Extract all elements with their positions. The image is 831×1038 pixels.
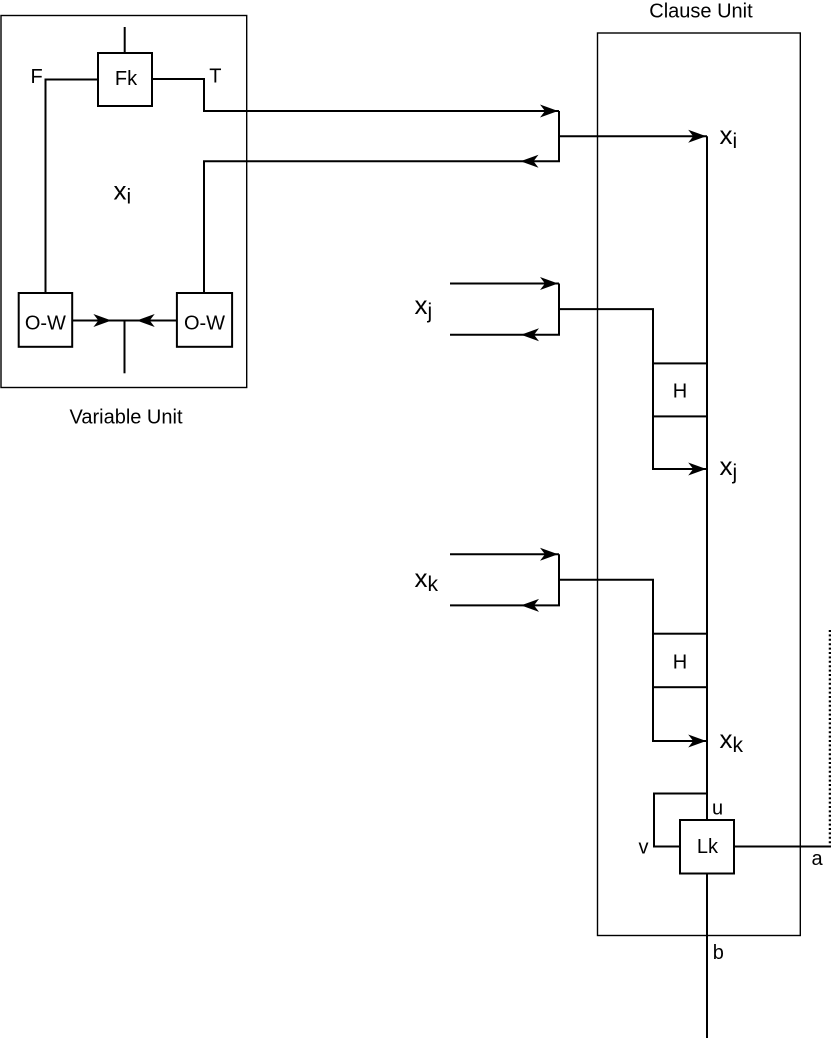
wire connector and return line to right O-W	[204, 111, 559, 293]
box Lk	[680, 820, 734, 874]
wire H to xj entry	[653, 416, 707, 469]
arrowhead right on T line	[540, 105, 558, 118]
clause unit frame	[598, 33, 801, 936]
wire T output	[152, 79, 559, 111]
arrowhead left on return line	[521, 155, 539, 168]
svg-text:u: u	[712, 798, 723, 820]
wire Fk top stub	[124, 27, 126, 53]
svg-text:H: H	[673, 380, 687, 402]
svg-text:Clause Unit: Clause Unit	[649, 1, 753, 23]
wire center bottom stub	[124, 321, 126, 374]
arrowhead right xi entry	[688, 130, 706, 143]
box Fk	[98, 53, 152, 106]
arrowhead right xj entry	[688, 463, 706, 476]
box O-W right	[177, 293, 232, 347]
wire xk connector and bottom output	[450, 554, 559, 605]
svg-text:F: F	[31, 66, 43, 88]
arrowhead right xk entry	[688, 735, 706, 748]
box H upper	[653, 363, 707, 416]
wire a output	[734, 846, 831, 848]
svg-text:v: v	[639, 837, 649, 859]
svg-text:Variable Unit: Variable Unit	[69, 406, 182, 428]
arrowhead right xj top	[540, 277, 558, 290]
wire xk top input	[450, 553, 559, 555]
arrowhead left between O-W	[137, 314, 155, 327]
arrowhead left xj bottom	[521, 328, 539, 341]
arrowhead right between O-W	[93, 314, 111, 327]
wire xj connector and bottom output	[450, 284, 559, 335]
arrowhead right xk top	[540, 548, 558, 561]
wire between O-W boxes	[72, 320, 177, 322]
wire xi mid line into clause	[559, 135, 707, 137]
wire F output to left O-W	[46, 80, 99, 294]
wire xj mid to H	[559, 309, 653, 363]
svg-text:O-W: O-W	[184, 313, 225, 335]
arrowhead left xk bottom	[521, 599, 539, 612]
wire chain vertical	[706, 136, 708, 820]
box O-W left	[19, 293, 72, 347]
wire H to xk entry	[653, 687, 707, 741]
wire b output below Lk	[706, 874, 708, 1038]
svg-text:a: a	[812, 848, 824, 870]
box H lower	[653, 634, 707, 688]
wire xk mid to H	[559, 580, 653, 634]
variable unit frame	[1, 16, 247, 388]
svg-text:H: H	[673, 652, 687, 674]
wire xj top input	[450, 283, 559, 285]
svg-text:T: T	[209, 66, 221, 88]
wire Lk feedback loop	[654, 794, 707, 847]
svg-text:O-W: O-W	[25, 313, 66, 335]
wire dotted connection	[829, 630, 831, 846]
svg-text:Lk: Lk	[697, 836, 719, 858]
svg-text:Fk: Fk	[115, 68, 138, 90]
svg-text:b: b	[713, 942, 724, 964]
